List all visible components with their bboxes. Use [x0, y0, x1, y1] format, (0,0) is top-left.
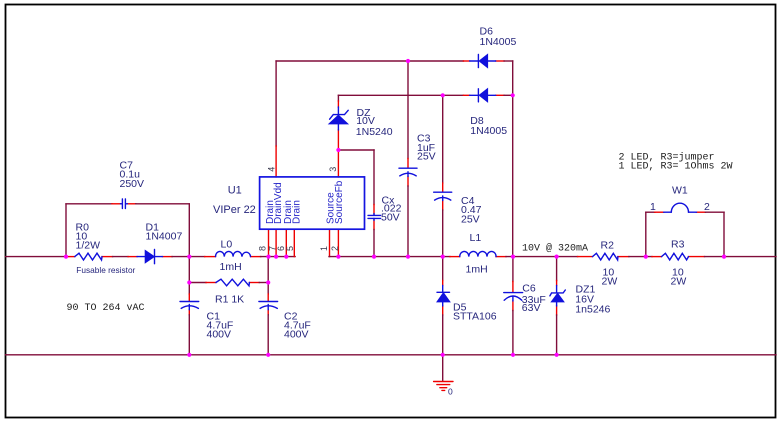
- wire R0 leads: [67, 256, 113, 258]
- wire U1 pin 3: [337, 150, 339, 177]
- node W1 right junction: [722, 255, 726, 259]
- wire R3 to W1 right node: [705, 256, 725, 258]
- inductor L0: [216, 239, 251, 274]
- wire AC input top rail left: [6, 256, 67, 258]
- wire D5 column: [442, 257, 444, 355]
- wire R2 leads: [578, 256, 629, 258]
- wire Cx vertical: [373, 150, 375, 257]
- svg-text:1mH: 1mH: [466, 264, 488, 276]
- wire top rail to D6: [276, 60, 463, 62]
- capacitor Cx: [368, 194, 402, 223]
- svg-text:8: 8: [258, 246, 268, 251]
- wire D8 row left: [338, 94, 463, 96]
- wire DZ column: [337, 95, 339, 150]
- wire R3 leads: [652, 256, 705, 258]
- diode D1: [137, 222, 182, 264]
- diode D5: [437, 286, 497, 323]
- capacitor C2: [259, 302, 311, 341]
- wire output rail to R2: [557, 256, 578, 258]
- node FB junction: [336, 148, 340, 152]
- wire D6 red pin stubs: [463, 60, 504, 62]
- svg-text:1N4005: 1N4005: [480, 36, 517, 48]
- node DZ1 top junction: [555, 255, 559, 259]
- wire W1 right vertical: [723, 212, 725, 256]
- wire C7 branch top horizontal: [66, 203, 189, 205]
- svg-text:2: 2: [704, 201, 710, 213]
- diode D6: [470, 26, 517, 68]
- resistor R1: [215, 279, 249, 305]
- node W1 left junction: [644, 255, 648, 259]
- svg-text:25V: 25V: [417, 151, 436, 163]
- node D8 row right junction: [511, 93, 515, 97]
- svg-text:400V: 400V: [207, 329, 232, 341]
- svg-text:Drain: Drain: [291, 200, 302, 224]
- op-amp U1 VIPer22 body: [213, 167, 365, 251]
- node D5 bottom junction: [441, 353, 445, 357]
- svg-text:1: 1: [650, 201, 656, 213]
- wire D6 to right corner: [504, 60, 513, 62]
- wire C3 vertical: [407, 61, 409, 257]
- wire U1 pin 6: [285, 229, 287, 256]
- svg-text:5: 5: [285, 246, 295, 251]
- wire output rail to right border: [724, 256, 776, 258]
- svg-text:4: 4: [267, 167, 277, 172]
- svg-text:50V: 50V: [381, 211, 400, 223]
- svg-text:2: 2: [330, 246, 340, 251]
- node rectified bus junction: [187, 255, 191, 259]
- svg-text:90 TO 264 vAC: 90 TO 264 vAC: [67, 303, 145, 314]
- wire W1 left vertical: [645, 212, 647, 256]
- wire DZ1 column: [556, 257, 558, 355]
- svg-text:VIPer 22: VIPer 22: [213, 204, 256, 216]
- capacitor C6: [504, 283, 546, 314]
- wire node2 vertical to C2 and bottom rail: [267, 257, 269, 355]
- capacitor C4: [434, 192, 482, 225]
- svg-text:R2: R2: [601, 240, 615, 252]
- wire right column vertical: [512, 61, 514, 257]
- wire D8 to right column: [504, 94, 513, 96]
- wire C4 vertical: [442, 95, 444, 256]
- zener diode DZ1: [550, 283, 611, 315]
- node R1 branch left junction: [187, 280, 191, 284]
- svg-text:1N5240: 1N5240: [356, 126, 393, 138]
- zener diode DZ: [329, 107, 393, 138]
- wire C7 branch right vertical: [188, 204, 190, 257]
- node C2 bottom junction: [266, 353, 270, 357]
- diode D8: [470, 89, 508, 138]
- svg-text:STTA106: STTA106: [453, 310, 497, 322]
- wire L1 to C6 node: [506, 256, 557, 258]
- node D8 row C4 junction: [441, 93, 445, 97]
- svg-text:1N4005: 1N4005: [470, 125, 507, 137]
- svg-text:1: 1: [319, 246, 329, 251]
- wire ground stem: [442, 355, 444, 382]
- wire W1 top left segment: [646, 211, 664, 213]
- svg-text:Fusable resistor: Fusable resistor: [76, 265, 135, 275]
- wire L0 to drain pins: [261, 256, 296, 258]
- svg-text:10V @ 320mA: 10V @ 320mA: [522, 243, 588, 255]
- wire W1 top right segment: [697, 211, 725, 213]
- wire D1 red pin stubs: [128, 256, 172, 258]
- node Cx junction: [372, 255, 376, 259]
- node top rail C3 junction: [406, 59, 410, 63]
- node AC input junction: [64, 255, 68, 259]
- wire R0 to D1: [113, 256, 129, 258]
- wire C6 column: [512, 257, 514, 355]
- wire FB node to Cx corner: [338, 149, 374, 151]
- wire U1 pin 2: [337, 229, 339, 256]
- svg-text:R3: R3: [671, 239, 685, 251]
- wire D1 to node: [172, 256, 205, 258]
- svg-text:63V: 63V: [522, 302, 541, 314]
- svg-text:1N4007: 1N4007: [146, 231, 183, 243]
- node C6 bottom junction: [511, 353, 515, 357]
- node L1 left junction: [441, 255, 445, 259]
- wire U1 pin 4 vertical to top rail: [275, 61, 277, 177]
- wire D8 red pin stubs: [463, 94, 504, 96]
- wire U1 pin 8: [268, 229, 270, 256]
- wire U1 pin 7: [275, 229, 277, 256]
- wire R1 damping branch: [189, 282, 268, 284]
- svg-text:250V: 250V: [120, 178, 145, 190]
- svg-text:R1 1K: R1 1K: [215, 294, 244, 306]
- svg-text:L1: L1: [470, 232, 482, 244]
- node R1 branch right junction: [266, 280, 270, 284]
- resistor R0: [75, 221, 136, 275]
- node drain pin 6 junction: [284, 255, 288, 259]
- svg-text:1/2W: 1/2W: [76, 240, 101, 252]
- svg-text:L0: L0: [221, 239, 233, 251]
- svg-text:SourceFb: SourceFb: [334, 180, 345, 224]
- svg-text:2W: 2W: [602, 276, 618, 288]
- jumper W1: [650, 185, 710, 214]
- ground: [434, 382, 453, 397]
- wire C7 branch left vertical: [65, 204, 67, 257]
- resistor R3: [662, 239, 689, 288]
- svg-text:1 LED, R3= 1Ohms 2W: 1 LED, R3= 1Ohms 2W: [619, 161, 733, 173]
- wire U1 pin 1: [329, 229, 331, 256]
- node drain pin 8 junction: [266, 255, 270, 259]
- node C3 bottom junction: [406, 255, 410, 259]
- wire U1 pin 5: [293, 229, 295, 256]
- node C6 top junction: [511, 255, 515, 259]
- wire bottom return rail: [6, 354, 777, 356]
- svg-text:1mH: 1mH: [220, 261, 242, 273]
- wire node1 vertical to C1 and bottom rail: [188, 257, 190, 355]
- node C1 bottom junction: [187, 353, 191, 357]
- capacitor C3: [399, 133, 436, 177]
- node drain pin 7 junction: [274, 255, 278, 259]
- svg-text:0: 0: [448, 387, 453, 397]
- node DZ1 bottom junction: [555, 353, 559, 357]
- svg-text:3: 3: [328, 167, 338, 172]
- svg-text:1n5246: 1n5246: [575, 303, 610, 315]
- svg-text:W1: W1: [672, 185, 688, 197]
- svg-text:10V: 10V: [356, 115, 375, 127]
- wire L0 leads: [205, 256, 261, 258]
- capacitor C1: [180, 302, 233, 341]
- inductor L1: [460, 232, 496, 276]
- wire R2 to W1 node: [629, 256, 652, 258]
- wire source output rail: [329, 256, 450, 258]
- capacitor C7: [120, 160, 145, 209]
- svg-text:2W: 2W: [671, 276, 687, 288]
- resistor R2: [593, 240, 618, 288]
- svg-text:25V: 25V: [461, 213, 480, 225]
- svg-text:400V: 400V: [284, 329, 309, 341]
- wire L1 leads: [450, 256, 506, 258]
- svg-text:U1: U1: [228, 185, 242, 197]
- node source pin 2 junction: [336, 255, 340, 259]
